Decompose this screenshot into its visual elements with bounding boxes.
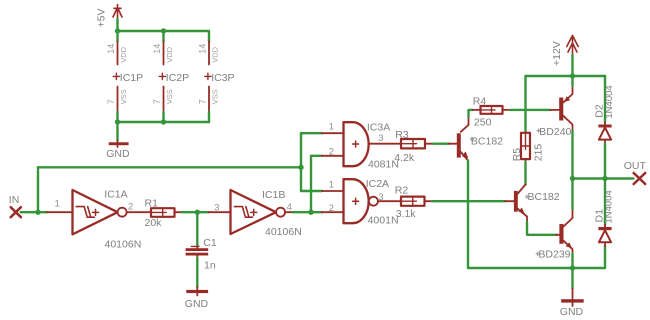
- wire IN riser: [37, 167, 39, 212]
- junction OUT at D1 D2: [602, 176, 607, 181]
- svg-text:7: 7: [152, 99, 162, 104]
- svg-text:BD240: BD240: [539, 126, 571, 138]
- svg-text:VSS: VSS: [211, 89, 220, 104]
- svg-text:3: 3: [378, 192, 383, 203]
- svg-text:14: 14: [106, 44, 116, 54]
- resistor R3 4.2k: [401, 139, 425, 148]
- wire to IC2A pin1: [301, 190, 322, 192]
- wire +5V drop: [116, 19, 118, 31]
- resistor R2 3.1k: [401, 197, 425, 206]
- wire to IC3A pin1: [301, 132, 322, 134]
- svg-text:215: 215: [533, 144, 545, 162]
- svg-text:3: 3: [378, 133, 383, 144]
- wire IN to IC1A: [21, 211, 47, 213]
- wire C1 to GND: [196, 258, 198, 287]
- resistor R4 250: [473, 109, 481, 111]
- gate IC3A AND 4081N: [322, 133, 344, 156]
- wire R1 to junction: [182, 211, 209, 213]
- junction R1 C1: [195, 210, 200, 215]
- wire OUT node: [573, 177, 634, 179]
- svg-text:GND: GND: [185, 298, 209, 310]
- wire VDD drop IC2P: [162, 31, 164, 42]
- svg-text:1: 1: [329, 179, 334, 190]
- transistor BD240 PNP: [559, 98, 563, 121]
- svg-text:2: 2: [128, 202, 133, 213]
- wire +12V drop: [571, 55, 573, 76]
- svg-text:OUT: OUT: [624, 160, 647, 172]
- junction bottom rail GND: [570, 265, 575, 270]
- junction +12V node: [570, 73, 575, 78]
- svg-text:4001N: 4001N: [368, 215, 399, 227]
- svg-text:1: 1: [55, 198, 60, 209]
- IC1P origin and name: [113, 73, 119, 79]
- diode D1 1N4004: [604, 179, 606, 225]
- svg-text:IC1A: IC1A: [104, 188, 127, 200]
- junction VSS rail at IC1P: [115, 119, 120, 124]
- wire R5 to Q2 collector: [524, 162, 526, 185]
- supply +5V: [113, 5, 122, 20]
- power part IC2P pin VSS pin 7: [163, 87, 165, 113]
- wire R4 to BD240 base: [510, 109, 550, 111]
- ground GND bottom right: [572, 289, 574, 306]
- junction long net: [298, 165, 303, 170]
- svg-text:BD239: BD239: [538, 249, 570, 261]
- power part IC3P pin VDD pin 14: [208, 42, 210, 65]
- wire junction to C1: [196, 212, 198, 246]
- svg-text:40106N: 40106N: [265, 226, 302, 238]
- wire to IC3A pin2: [311, 155, 322, 157]
- junction rail at IC1P: [115, 28, 120, 33]
- svg-text:R4: R4: [473, 96, 487, 108]
- svg-text:40106N: 40106N: [105, 239, 142, 251]
- svg-text:+5V: +5V: [96, 9, 108, 28]
- power part IC3P pin VSS pin 7: [208, 87, 210, 113]
- capacitor C1 1n: [196, 247, 198, 249]
- svg-text:C1: C1: [203, 237, 217, 249]
- wire BD239 emitter to bottom rail: [571, 254, 573, 268]
- svg-text:R2: R2: [395, 185, 409, 197]
- junction rail at IC2P: [161, 28, 166, 33]
- wire +12V rail to D2: [604, 76, 606, 122]
- wire top +5V rail: [118, 31, 210, 42]
- resistor R5 215: [521, 133, 530, 159]
- svg-text:14: 14: [152, 44, 162, 54]
- svg-text:2: 2: [329, 147, 334, 158]
- junction VSS rail at IC2P: [161, 119, 166, 124]
- wire Q1 collector to R4: [469, 110, 474, 117]
- junction node IN: [35, 210, 40, 215]
- svg-text:VDD: VDD: [119, 46, 128, 62]
- wire +12V rail to R5: [526, 76, 606, 133]
- svg-text:2: 2: [329, 203, 334, 214]
- svg-text:R5: R5: [511, 148, 523, 162]
- wire GND drop right: [571, 268, 573, 289]
- svg-text:1N4004: 1N4004: [604, 85, 615, 118]
- svg-text:IN: IN: [9, 194, 19, 206]
- svg-text:1n: 1n: [204, 260, 216, 272]
- svg-text:3: 3: [214, 202, 219, 213]
- wire R3 to Q1 base: [433, 142, 449, 144]
- svg-text:GND: GND: [560, 306, 584, 318]
- power part IC1P pin VSS pin 7: [117, 87, 119, 113]
- svg-text:250: 250: [474, 116, 492, 128]
- svg-text:7: 7: [106, 99, 116, 104]
- svg-text:IC3A: IC3A: [367, 121, 390, 133]
- IC2P origin and name: [159, 73, 165, 79]
- svg-text:BC182: BC182: [528, 191, 560, 203]
- supply +12V: [567, 36, 578, 56]
- svg-text:IC2P: IC2P: [166, 72, 189, 84]
- svg-text:14: 14: [197, 44, 207, 54]
- svg-text:VSS: VSS: [165, 89, 174, 104]
- svg-text:IC1P: IC1P: [120, 72, 143, 84]
- wire vertical IC1B out to IC3A pin2: [310, 156, 312, 212]
- wire BD240 emitter to rail: [571, 76, 573, 86]
- svg-text:4: 4: [287, 202, 292, 213]
- svg-text:IC2A: IC2A: [366, 178, 389, 190]
- wire BD240 collector to OUT node: [571, 131, 573, 179]
- wire BD239 collector to OUT node: [571, 179, 573, 210]
- wire bottom VSS rail: [118, 121, 210, 123]
- wire GND drop: [116, 122, 118, 141]
- wire long top net: [38, 166, 301, 168]
- svg-text:R1: R1: [145, 198, 159, 210]
- svg-text:20k: 20k: [145, 217, 163, 229]
- svg-text:1: 1: [329, 122, 334, 133]
- wire vertical to gate pin1s: [300, 133, 302, 191]
- svg-text:1N4004: 1N4004: [604, 190, 615, 223]
- wire R2 to Q2 base: [432, 200, 506, 202]
- svg-text:VDD: VDD: [165, 46, 174, 62]
- transistor BD239 NPN: [559, 224, 563, 244]
- svg-text:4.2k: 4.2k: [394, 152, 415, 164]
- svg-text:VDD: VDD: [211, 46, 220, 62]
- wire Q2 emitter to BD239 base: [527, 222, 556, 235]
- resistor R1 20k: [151, 208, 175, 217]
- junction OUT at BD240: [570, 176, 575, 181]
- op-amp IC1B inverter 40106N: [209, 211, 231, 213]
- svg-text:IC3P: IC3P: [211, 72, 234, 84]
- svg-text:+12V: +12V: [551, 41, 563, 66]
- wire D2 to OUT node: [604, 144, 606, 179]
- power part IC2P pin VDD pin 14: [163, 42, 165, 65]
- svg-text:BC182: BC182: [471, 136, 503, 148]
- IC3P origin and name: [205, 73, 211, 79]
- wire Q1 emitter and bottom rail: [468, 161, 605, 269]
- svg-text:IC1B: IC1B: [262, 189, 285, 201]
- svg-text:GND: GND: [106, 148, 130, 160]
- svg-text:R3: R3: [395, 129, 409, 141]
- svg-text:VSS: VSS: [119, 89, 128, 104]
- transistor Q2 BC182: [514, 191, 518, 212]
- ground GND under C1: [196, 287, 198, 296]
- transistor Q1 BC182: [457, 133, 461, 157]
- svg-text:3.1k: 3.1k: [396, 208, 417, 220]
- ground GND top-left: [117, 141, 119, 148]
- junction IC1B output: [308, 210, 313, 215]
- wire VSS risers: [118, 112, 210, 122]
- gate IC2A NOR 4001N: [322, 191, 344, 212]
- wire VDD drop IC1P: [116, 31, 118, 42]
- diode D2 1N4004: [604, 122, 606, 124]
- svg-text:7: 7: [197, 99, 207, 104]
- op-amp IC1A inverter 40106N: [47, 211, 73, 213]
- wire IC1B out to IC2A pin2: [293, 211, 322, 213]
- power part IC1P pin VDD pin 14: [117, 42, 119, 65]
